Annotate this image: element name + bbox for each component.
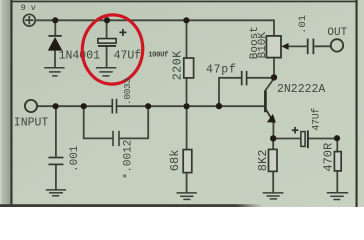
ground (diode) [44,68,64,76]
node: top rail / C1 [104,17,110,23]
node: input/.0012 left [81,103,87,109]
wire: 8K2 top lead [272,138,274,149]
node: input/68k [184,103,190,109]
resistor R2 68k [183,150,192,173]
svg-text:.01: .01 [297,15,309,34]
INPUT terminal [25,100,37,112]
node: base/47pf [216,103,222,109]
svg-text:8K2: 8K2 [256,150,270,172]
node: emitter [270,135,276,141]
diode D1 1N4001 (cathode up) [48,36,63,51]
svg-text:47Uf: 47Uf [114,50,142,63]
svg-text:.0033: .0033 [122,78,133,105]
node: top rail / diode [52,17,58,23]
ground (470R) [327,193,348,200]
capacitor 47pf [242,71,247,85]
svg-text:*.0012: *.0012 [123,140,135,180]
node: output cap / 470R [334,135,340,141]
node: input/.001 [53,103,59,109]
svg-text:68k: 68k [168,150,182,172]
resistor R3 8K2 [269,149,278,171]
OUT terminal [331,39,343,51]
wire: top +9V rail [35,20,274,36]
wire: 68k top lead [186,106,188,149]
capacitor C1 47Uf (electrolytic) [98,29,127,46]
wire: collector diagonal [265,80,273,92]
wire: 220K top lead [186,20,188,58]
node: input/.0012 right [145,103,151,109]
wire: 68k to ground [186,173,188,193]
svg-text:47pf: 47pf [206,63,237,76]
capacitor .001 [48,158,63,165]
node: top rail / 220K [183,17,189,23]
resistor R4 470R [334,152,341,171]
wire: 47pf branch [219,78,241,106]
svg-text:.001: .001 [69,145,81,172]
wire: input line left of series cap [37,105,112,107]
svg-text:1N4001: 1N4001 [59,50,101,63]
wire: C3 to out node [308,138,337,140]
wire: pot bottom to collector node [273,58,275,79]
red annotation ellipse [80,13,145,86]
svg-text:9 v: 9 v [21,3,36,13]
wire: 8K2 to ground [272,171,274,192]
transistor Q1 2N2222A [265,91,276,123]
ground (68k) [177,193,197,200]
ground (.001) [46,190,66,196]
wire: emitter node to C3 [273,138,301,140]
wire: 220K bottom lead [186,78,188,106]
wire: diode drop [54,20,56,36]
svg-text:220K: 220K [172,50,185,80]
wire: pot wiper to .01 cap [288,45,307,47]
svg-text:47Uf: 47Uf [311,108,323,131]
resistor R1 220K [184,58,194,78]
wire: .0012 U branch [84,106,113,138]
svg-text:INPUT: INPUT [14,117,49,130]
ground (8K2) [263,193,284,199]
wire: 470R top lead [336,139,338,152]
wire: .01 cap to OUT [314,45,330,47]
wire: 47pf to collector node [247,77,274,79]
svg-text:B10K: B10K [257,32,269,59]
pot wiper arrow [281,43,288,50]
wire: emitter vertical [272,122,274,139]
wire: .0012 U branch right [119,106,148,138]
ground (C1) [96,68,116,76]
capacitor .0033 (series) [112,99,116,114]
wire: C1 drop [106,20,108,38]
wire: 470R to ground [336,171,338,193]
potentiometer Boost B10K [266,36,281,58]
wire: C1 to ground [106,46,108,68]
battery terminal +9V [23,14,35,26]
capacitor *.0012 [113,131,119,146]
capacitor C3 47Uf (electrolytic, output) [292,127,308,148]
svg-text:470R: 470R [321,143,335,172]
wire: .001 branch down [55,106,57,156]
wire: input line right of series cap to base [117,105,265,107]
wire: diode to ground [54,50,56,67]
node: collector/pot/47pf [271,74,277,80]
svg-text:OUT: OUT [327,27,347,39]
wire: .001 to ground [55,165,57,190]
capacitor .01 [308,39,314,55]
svg-text:2N2222A: 2N2222A [277,83,325,96]
svg-text:100Uf: 100Uf [148,52,168,60]
